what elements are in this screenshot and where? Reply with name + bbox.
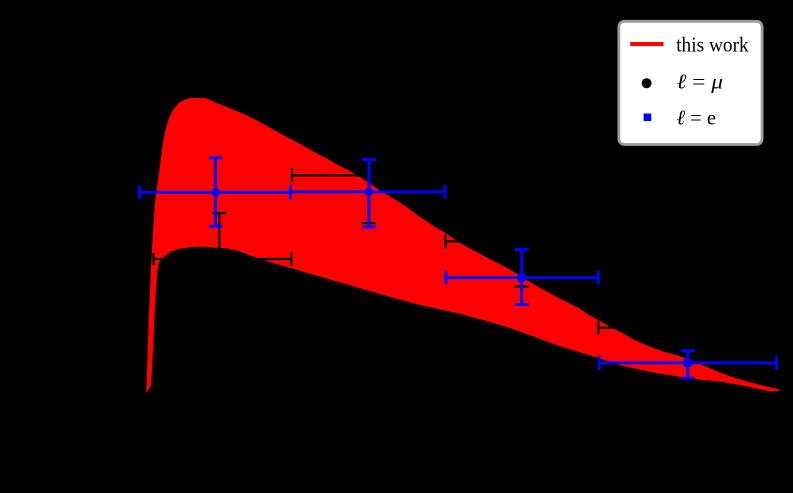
e point 4 marker xyxy=(684,359,692,367)
mu point 4 black error bars xyxy=(598,272,776,382)
e point 2 marker xyxy=(366,189,373,196)
svg-text:ℓ = μ: ℓ = μ xyxy=(677,70,724,94)
svg-text:ℓ = e: ℓ = e xyxy=(677,106,717,130)
e point 1 blue error bars xyxy=(140,158,291,226)
legend e marker xyxy=(644,114,652,122)
e point 3 blue error bars xyxy=(446,250,598,305)
mu point 3 black error bars xyxy=(445,196,598,286)
mu point 3 marker xyxy=(517,237,525,245)
legend mu marker xyxy=(642,78,652,88)
red band: this work xyxy=(146,98,780,394)
svg-text:this work: this work xyxy=(676,33,749,57)
mu point 4 marker xyxy=(684,324,692,332)
e point 4 blue error bars xyxy=(599,351,776,379)
e point 1 marker xyxy=(212,189,219,196)
mu point 2 black error bars xyxy=(292,127,446,223)
mu point 1 black error bars xyxy=(154,213,292,305)
mu point 2 marker xyxy=(364,171,372,179)
e point 3 marker xyxy=(518,274,526,282)
e point 2 blue error bars xyxy=(291,160,445,228)
legend box xyxy=(619,21,762,144)
legend red line sample xyxy=(630,42,663,46)
mu point 1 marker xyxy=(215,255,223,263)
